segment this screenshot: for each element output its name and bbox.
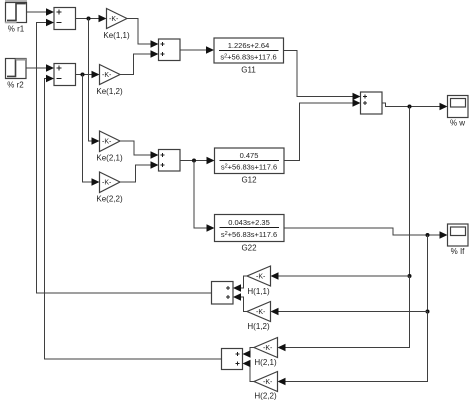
wire Sum1 to Ke(1,1) (76, 15, 107, 23)
svg-text:1.226s+2.64: 1.226s+2.64 (228, 41, 270, 50)
sum block Sum2 (54, 64, 76, 86)
junction w (408, 105, 412, 109)
wire e2 down to Ke(2,2) (83, 75, 100, 186)
svg-text:0.043s+2.35: 0.043s+2.35 (228, 218, 270, 227)
wire e1 down to Ke(2,1) (89, 19, 100, 145)
transfer function G11 (214, 38, 284, 63)
scope If (448, 224, 469, 246)
gain Ke(1,2) (100, 65, 121, 85)
junction If (426, 233, 430, 237)
wire w to H(1,1) (271, 272, 410, 280)
sum block SumF1 (212, 282, 234, 305)
svg-text:Ke(1,2): Ke(1,2) (96, 87, 123, 96)
svg-text:s2+56.83s+117.6: s2+56.83s+117.6 (220, 53, 276, 62)
wire If down to H(2,2) (278, 312, 428, 386)
step source r2 (6, 59, 27, 79)
gain H(2,1) (254, 338, 278, 358)
wire SumF1 to Sum1 minus (37, 19, 212, 293)
sum block SumB (159, 150, 181, 172)
svg-text:-K-: -K- (256, 274, 266, 281)
svg-text:-K-: -K- (109, 16, 119, 23)
wire SumOut to scope w (382, 103, 448, 111)
junction e1 (87, 17, 91, 21)
svg-text:-K-: -K- (102, 180, 112, 187)
wire SumB to G12 (180, 157, 215, 165)
svg-text:s2+56.83s+117.6: s2+56.83s+117.6 (221, 163, 277, 172)
wire w down to H(2,1) (278, 276, 410, 351)
gain H(1,1) (247, 266, 271, 286)
wire step r2 to Sum2 (26, 64, 54, 72)
wire H(1,1) to SumF1 (233, 276, 247, 292)
transfer function G22 (215, 215, 285, 242)
svg-text:H(2,1): H(2,1) (254, 358, 277, 367)
gain Ke(1,1) (107, 9, 128, 29)
wire Ke(2,2) to SumB (120, 161, 159, 182)
step source r1 (5, 0, 27, 23)
svg-text:% w: % w (450, 119, 465, 128)
svg-text:-K-: -K- (102, 139, 112, 146)
gain H(1,2) (247, 302, 271, 322)
svg-text:G22: G22 (241, 244, 257, 253)
wire step r1 to Sum1 (27, 8, 55, 16)
wire G12 to SumOut (284, 99, 361, 160)
svg-text:G11: G11 (241, 66, 256, 75)
wire Ke(1,1) to SumA (127, 19, 159, 48)
svg-text:Ke(1,1): Ke(1,1) (103, 31, 130, 40)
wire If to H(1,2) (271, 308, 428, 316)
junction If2 (426, 310, 430, 314)
wire H(1,2) to SumF1 (233, 293, 247, 311)
svg-text:H(1,1): H(1,1) (247, 287, 270, 296)
gain Ke(2,1) (100, 131, 121, 152)
sum block Sum1 (54, 8, 76, 30)
sum block SumF2 (222, 349, 243, 370)
wire SumA to G11 (180, 46, 214, 54)
gain H(2,2) (254, 372, 278, 392)
wire SumF2 to Sum2 minus (45, 75, 222, 359)
svg-text:% r1: % r1 (8, 25, 25, 34)
wire H(2,1) to SumF2 (243, 348, 255, 358)
gain Ke(2,2) (100, 172, 121, 193)
junction w2 (408, 274, 412, 278)
svg-text:Ke(2,2): Ke(2,2) (96, 195, 123, 204)
svg-text:Ke(2,1): Ke(2,1) (96, 154, 123, 163)
wire G11 to SumOut (284, 51, 361, 101)
svg-text:s2+56.83s+117.6: s2+56.83s+117.6 (221, 230, 277, 239)
wire u2 down to G22 (194, 161, 215, 232)
svg-text:-K-: -K- (102, 72, 112, 79)
junction u2 (192, 159, 196, 163)
wire Sum2 to Ke(1,2) (76, 71, 100, 79)
svg-text:-K-: -K- (256, 309, 266, 316)
sum block SumOut (361, 92, 383, 114)
scope w (448, 96, 469, 118)
wire G22 to scope If (284, 228, 448, 239)
wire If feedback down (427, 235, 429, 312)
wire Ke(2,1) to SumB (120, 141, 159, 159)
wire Ke(1,2) to SumA (120, 50, 159, 74)
svg-text:H(1,2): H(1,2) (247, 322, 270, 331)
wire H(2,2) to SumF2 (243, 360, 255, 382)
svg-text:H(2,2): H(2,2) (254, 392, 277, 401)
svg-text:-K-: -K- (263, 345, 273, 352)
svg-text:% If: % If (451, 247, 466, 256)
svg-text:% r2: % r2 (7, 81, 24, 90)
svg-text:-K-: -K- (263, 379, 273, 386)
svg-text:G12: G12 (241, 176, 257, 185)
junction e2 (81, 73, 85, 77)
wire w feedback down (409, 107, 411, 277)
svg-text:0.475: 0.475 (240, 151, 259, 160)
sum block SumA (159, 39, 181, 61)
transfer function G12 (215, 148, 285, 174)
